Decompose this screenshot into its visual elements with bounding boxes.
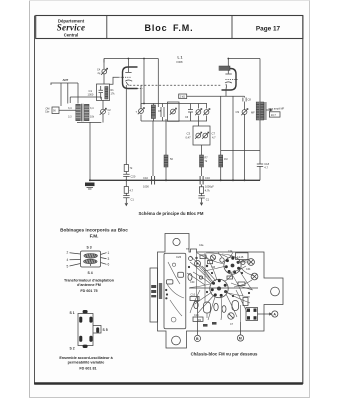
- svg-text:4: 4: [67, 258, 69, 262]
- wire y=150 right: [221, 149, 260, 151]
- capacitor C10 series in bus: [143, 121, 155, 189]
- svg-text:S 4: S 4: [88, 271, 93, 275]
- svg-text:3,4: 3,4: [90, 107, 94, 110]
- svg-text:FD 601 75: FD 601 75: [80, 289, 97, 293]
- svg-text:3,3: 3,3: [68, 115, 72, 118]
- resistor K4: [193, 314, 203, 321]
- resistor K3: [190, 294, 199, 301]
- svg-text:C3: C3: [187, 132, 191, 136]
- inductor osc coil: [219, 66, 230, 70]
- svg-text:Bloc F.M.: Bloc F.M.: [144, 23, 193, 33]
- svg-text:C7: C7: [212, 132, 216, 136]
- node S5 loop: [93, 326, 108, 334]
- svg-text:C30: C30: [190, 281, 195, 284]
- svg-text:C24: C24: [228, 250, 233, 253]
- resistor 2k box label: [179, 94, 187, 99]
- pin bottom left: [79, 336, 82, 342]
- svg-text:L 1: L 1: [178, 56, 183, 60]
- capacitor C16 in bus: [200, 176, 214, 189]
- connector OM terminal: [45, 107, 76, 114]
- trimmer E3: [195, 261, 201, 267]
- component wiring web 2: [187, 253, 253, 321]
- caption schema: [139, 211, 204, 216]
- svg-text:F008: F008: [177, 60, 183, 64]
- header left cell: Departement Service Central: [57, 18, 85, 37]
- svg-text:C1: C1: [131, 198, 135, 202]
- svg-text:2 kΩ: 2 kΩ: [180, 95, 185, 99]
- svg-text:d’antenne FM: d’antenne FM: [77, 283, 101, 287]
- wire grid line y=96: [187, 95, 245, 97]
- wire verticals right to bus: [233, 96, 245, 180]
- svg-text:F.M.: F.M.: [90, 234, 99, 239]
- svg-text:Transformateur d’adaptation: Transformateur d’adaptation: [64, 279, 115, 283]
- wire cathode V1 to bus: [125, 85, 127, 165]
- svg-text:Cde: Cde: [45, 111, 50, 114]
- document inner frame: [34, 16, 303, 385]
- pin top right: [89, 317, 92, 323]
- svg-text:0,47: 0,47: [186, 136, 192, 140]
- trimmer E2: [251, 273, 258, 280]
- svg-text:B: B: [196, 337, 199, 341]
- capacitor C18: [257, 120, 270, 180]
- antenna ANT input: [51, 78, 79, 106]
- svg-text:vers ampli MF: vers ampli MF: [269, 107, 285, 110]
- node B terminal: [194, 297, 200, 342]
- svg-text:1000: 1000: [143, 185, 149, 189]
- pin top center: [83, 310, 88, 313]
- tube socket A: [224, 257, 241, 274]
- header right cell: Page 17: [256, 25, 281, 32]
- inner shield panel: [159, 253, 186, 329]
- svg-text:5: 5: [67, 265, 69, 269]
- svg-text:1M: 1M: [224, 158, 227, 161]
- svg-text:12-B: 12-B: [237, 255, 243, 259]
- capacitor C6: [185, 110, 193, 120]
- svg-text:ANT: ANT: [63, 78, 69, 82]
- tube V2: [222, 58, 239, 97]
- svg-text:S 3: S 3: [87, 246, 92, 250]
- pin 6: [101, 263, 110, 267]
- inductor L1 label: [177, 56, 183, 65]
- ground: [85, 183, 95, 190]
- svg-text:C1: C1: [206, 198, 210, 202]
- capacitor C8: [243, 96, 251, 101]
- svg-text:3: 3: [108, 257, 110, 261]
- pin bottom right: [89, 336, 92, 342]
- svg-text:C16: C16: [194, 314, 199, 317]
- svg-text:MF: MF: [251, 111, 255, 115]
- svg-text:C1: C1: [89, 89, 93, 93]
- capacitor C4 trimmer top: [97, 59, 108, 85]
- svg-text:perméabilité variable: perméabilité variable: [68, 361, 105, 365]
- capacitor C5: [158, 107, 164, 117]
- tube socket B: [210, 279, 228, 297]
- label box 12-B: [236, 253, 249, 260]
- transformer T1: [68, 104, 95, 121]
- left bracket: [150, 268, 158, 322]
- capacitor C4 trimmer: [136, 85, 145, 114]
- title bobinages: [60, 228, 128, 239]
- transformer T1 shield: [70, 97, 101, 123]
- wire top rail left B+: [104, 58, 158, 107]
- trimmer K6: [228, 313, 234, 319]
- transformer antenna pinout body: [81, 251, 101, 267]
- resistor K5: [243, 298, 248, 306]
- node MF output arrow: [266, 107, 285, 117]
- chassis hole top: [173, 238, 180, 245]
- component wiring web: [190, 253, 254, 321]
- svg-text:Châssis-bloc FM vu par dessous: Châssis-bloc FM vu par dessous: [191, 352, 258, 357]
- svg-text:3,4: 3,4: [68, 107, 72, 110]
- svg-text:C9: C9: [236, 110, 240, 114]
- node S1 label: [70, 311, 75, 315]
- node A terminal: [258, 311, 278, 317]
- caption chassis: [191, 352, 258, 357]
- pin top left: [79, 317, 82, 323]
- inductor L2: [151, 105, 155, 119]
- svg-text:Central: Central: [64, 33, 78, 38]
- upper tuning component row: [141, 104, 207, 122]
- node S4 label: [88, 271, 93, 275]
- wire top rail right B+: [228, 59, 260, 103]
- caption transformateur: [64, 279, 115, 294]
- svg-text:T16: T16: [211, 266, 216, 269]
- svg-text:Service: Service: [57, 23, 85, 33]
- component small parts scatter: [186, 244, 251, 327]
- pin 1: [101, 251, 110, 255]
- capacitor C14 trimmer: [203, 109, 210, 116]
- node junctions on bus: [89, 179, 246, 181]
- svg-text:Page 17: Page 17: [256, 25, 281, 32]
- svg-text:C4a: C4a: [199, 244, 204, 247]
- capacitor can K2: [232, 301, 239, 311]
- svg-text:C10: C10: [143, 176, 148, 180]
- svg-text:Bobinages incorporés au Bloc: Bobinages incorporés au Bloc: [60, 228, 128, 233]
- wire chassis horizontal: [189, 287, 258, 289]
- capacitor C20: [123, 172, 136, 181]
- svg-text:C10: C10: [191, 294, 196, 297]
- svg-text:4,7: 4,7: [212, 136, 216, 140]
- pin 2: [67, 251, 81, 255]
- inductor L4: [200, 155, 209, 176]
- pin 4: [67, 258, 81, 262]
- node S2 label: [70, 347, 75, 351]
- capacitor C9 trimmer: [236, 102, 248, 151]
- chassis outline: [158, 234, 284, 349]
- header title: Bloc F.M.: [144, 23, 193, 33]
- tuning box with trimmer: [168, 102, 180, 121]
- inductor L3: [164, 119, 173, 180]
- svg-text:6: 6: [108, 263, 110, 267]
- pin 5: [67, 264, 81, 269]
- node M terminal: [237, 322, 243, 341]
- pin bottom center: [83, 345, 88, 348]
- capacitor C3 C7 padder box: [186, 121, 217, 155]
- svg-text:C16: C16: [205, 176, 210, 180]
- chassis hole right: [271, 287, 280, 296]
- inductor L5: [219, 96, 228, 180]
- component column below bus at x=126: [123, 180, 134, 205]
- heater dashed line: [130, 85, 223, 88]
- svg-text:C8: C8: [248, 98, 252, 102]
- svg-text:1000µF: 1000µF: [205, 185, 214, 189]
- svg-text:C20: C20: [131, 175, 136, 179]
- capacitor C2 trimmer: [100, 97, 112, 123]
- svg-text:4,7k: 4,7k: [205, 189, 211, 193]
- svg-text:1: 1: [108, 251, 110, 255]
- svg-text:1000: 1000: [88, 93, 94, 97]
- pin 3: [101, 257, 110, 261]
- svg-text:M: M: [239, 337, 242, 341]
- svg-text:C34: C34: [246, 268, 251, 271]
- capacitor can K1: [204, 302, 211, 318]
- svg-text:4,7: 4,7: [264, 166, 268, 170]
- node S3 label: [87, 246, 92, 250]
- trimmer E1: [248, 259, 255, 266]
- svg-text:C18: C18: [264, 162, 269, 166]
- IF can bottom view: [246, 308, 258, 321]
- chassis hole bottom: [172, 336, 181, 345]
- tube V1: [109, 58, 137, 89]
- svg-text:S 2: S 2: [70, 347, 75, 351]
- trimmer top cluster: [189, 255, 225, 262]
- svg-text:S 5: S 5: [103, 328, 108, 332]
- svg-text:FD 601 81: FD 601 81: [79, 367, 96, 371]
- transformer FI output: [251, 102, 266, 120]
- svg-text:4,7: 4,7: [130, 189, 134, 193]
- capacitor C13 trimmer: [195, 109, 202, 116]
- svg-text:C26: C26: [176, 255, 182, 259]
- svg-text:A: A: [273, 313, 276, 317]
- coil assembly body: [78, 314, 93, 346]
- svg-text:2: 2: [67, 251, 69, 255]
- header table box: [36, 16, 303, 39]
- wire ground bus: [89, 179, 260, 181]
- svg-text:Ensemble accord-oscillateur à: Ensemble accord-oscillateur à: [59, 356, 113, 360]
- capacitor C1 / resistor R1 box: [88, 84, 116, 101]
- svg-text:S 1: S 1: [70, 311, 75, 315]
- svg-text:Schéma de principe du Bloc FM: Schéma de principe du Bloc FM: [139, 211, 204, 216]
- wire vertical from notch: [197, 252, 241, 322]
- component column below bus at x=202: [198, 185, 210, 206]
- svg-text:10,7: 10,7: [271, 113, 277, 117]
- resistor R6: [124, 165, 133, 172]
- caption ensemble: [59, 356, 113, 371]
- wire T1 to bus: [89, 122, 91, 180]
